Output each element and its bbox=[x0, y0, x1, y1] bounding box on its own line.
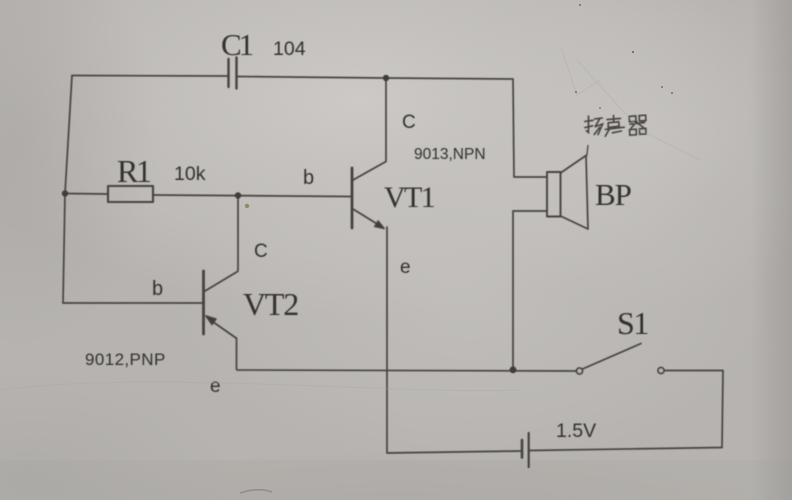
wire R1 to VT1 base bbox=[153, 195, 351, 197]
resistor R1 bbox=[108, 186, 153, 202]
char 器 bbox=[629, 115, 646, 135]
wire top rail left of C1 bbox=[72, 75, 228, 78]
transistor VT1 bbox=[352, 79, 386, 229]
svg-text:C: C bbox=[254, 241, 268, 262]
svg-text:VT1: VT1 bbox=[384, 181, 435, 214]
svg-text:C: C bbox=[402, 112, 416, 133]
wire VT1 emitter down to battery bbox=[387, 227, 521, 453]
svg-text:BP: BP bbox=[595, 177, 631, 212]
node left (R1 / left rail) bbox=[62, 190, 68, 196]
svg-text:e: e bbox=[210, 376, 221, 397]
svg-text:C1: C1 bbox=[221, 27, 253, 62]
svg-text:VT2: VT2 bbox=[243, 286, 298, 322]
speaker BP bbox=[513, 146, 588, 369]
wire VT2 base horizontal bbox=[63, 302, 202, 304]
node rail / speaker bottom bbox=[510, 366, 517, 373]
svg-text:10k: 10k bbox=[174, 163, 206, 185]
svg-text:b: b bbox=[303, 167, 314, 189]
capacitor C1 bbox=[229, 58, 237, 89]
svg-text:9012,PNP: 9012,PNP bbox=[85, 350, 166, 369]
svg-text:R1: R1 bbox=[117, 153, 151, 189]
paper creases and speckles bbox=[0, 48, 700, 391]
svg-text:104: 104 bbox=[273, 38, 306, 60]
wire left side vertical bbox=[63, 76, 72, 304]
label 扬声器 (hand-drawn CJK strokes) bbox=[585, 115, 646, 136]
svg-text:9013,NPN: 9013,NPN bbox=[414, 146, 486, 163]
char 扬 bbox=[585, 116, 603, 135]
svg-text:1.5V: 1.5V bbox=[556, 420, 596, 442]
node A (top rail / VT1 collector) bbox=[383, 75, 389, 81]
wire top rail right of C1 to top-right corner then down to speaker top lead bbox=[238, 77, 548, 178]
switch S1 bbox=[576, 344, 723, 448]
wire node to R1 bbox=[65, 193, 108, 196]
wire node B down to VT2 collector bbox=[237, 196, 239, 271]
char 声 bbox=[605, 115, 624, 136]
svg-text:b: b bbox=[152, 278, 163, 300]
wire VT2 emitter down then right (bottom rail to switch) bbox=[237, 338, 577, 371]
svg-text:S1: S1 bbox=[617, 305, 648, 341]
svg-text:e: e bbox=[400, 257, 411, 278]
battery 1.5V bbox=[522, 433, 722, 467]
node B (R1 / VT1 base / VT2 collector) bbox=[235, 192, 241, 198]
transistor VT2 bbox=[204, 271, 238, 338]
